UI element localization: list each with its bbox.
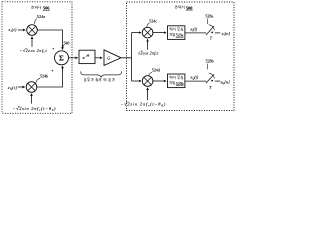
svg-text:−√2sin 2πfc(t−θT): −√2sin 2πfc(t−θT) xyxy=(12,106,56,112)
svg-text:xQ(t): xQ(t) xyxy=(7,85,18,91)
svg-text:xI[n]: xI[n] xyxy=(221,31,231,37)
svg-text:540: 540 xyxy=(64,41,70,45)
svg-text:xI(t): xI(t) xyxy=(7,27,17,33)
svg-text:528b: 528b xyxy=(206,59,214,64)
svg-text:−√2sin 2πfc(t−θR): −√2sin 2πfc(t−θR) xyxy=(120,102,166,108)
svg-text:528a: 528a xyxy=(205,14,213,19)
svg-text:xQ(t): xQ(t) xyxy=(189,75,198,81)
svg-text:524c: 524c xyxy=(149,19,157,24)
svg-text:Σ: Σ xyxy=(59,54,64,63)
svg-text:xI(t): xI(t) xyxy=(189,27,197,33)
svg-text:G: G xyxy=(107,56,110,61)
svg-text:+: + xyxy=(51,68,54,73)
svg-text:−√2cos 2πfct: −√2cos 2πfct xyxy=(20,48,48,54)
svg-text:xQ[n]: xQ[n] xyxy=(220,79,231,85)
svg-text:500: 500 xyxy=(186,5,192,10)
svg-text:524a: 524a xyxy=(37,14,46,19)
svg-text:524d: 524d xyxy=(152,68,160,73)
svg-text:524b: 524b xyxy=(40,74,48,79)
svg-text:506: 506 xyxy=(43,6,50,11)
